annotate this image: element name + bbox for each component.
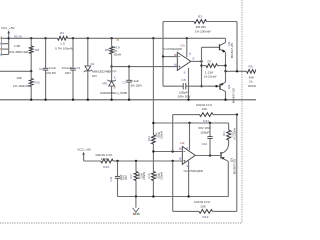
capacitor C3 (0.01uF) — [62, 38, 81, 99]
svg-text:R7: R7 — [208, 59, 212, 63]
svg-text:C11: C11 — [109, 176, 113, 182]
svg-text:R14: R14 — [222, 130, 226, 136]
wire +5V rail (y38) — [9, 37, 226, 39]
wire R12 to inverting input column x172.7 — [172, 115, 174, 152]
svg-text:R10: R10 — [34, 81, 40, 85]
wire U2 inverting input (y151.5) — [152, 150, 182, 152]
svg-text:100pF: 100pF — [200, 130, 209, 134]
svg-text:1%: 1% — [249, 80, 253, 84]
svg-text:10V: 10V — [92, 74, 97, 78]
wire U2 output (y155.5) — [195, 154, 220, 156]
wire +5V branch column x153.4 — [152, 38, 154, 196]
resistor R12 (10K feedback) — [173, 103, 239, 123]
svg-text:VCC_+5V: VCC_+5V — [77, 148, 91, 152]
svg-text:C10: C10 — [202, 142, 208, 146]
ground symbol — [133, 197, 140, 216]
svg-text:R19: R19 — [203, 215, 209, 219]
svg-text:R16: R16 — [103, 165, 109, 169]
wire R3 feedback loop — [163, 22, 237, 72]
junction dots on ground bus — [30, 99, 227, 101]
capacitor C7 — [122, 65, 142, 99]
junction dots on +5V rail — [30, 37, 188, 39]
svg-text:100K: 100K — [101, 157, 108, 161]
resistor R17 (100K) — [129, 161, 146, 197]
svg-text:0.1uF: 0.1uF — [49, 66, 57, 70]
svg-text:1.0: 1.0 — [60, 42, 65, 46]
svg-text:100mW: 100mW — [160, 131, 164, 139]
svg-text:R3: R3 — [198, 14, 202, 18]
wire U1 noninverting input (y66.6) — [112, 66, 178, 68]
wire V+ distribution (y123) — [152, 122, 228, 124]
svg-text:R18: R18 — [147, 173, 151, 179]
wire U1 V+ pin to rail — [186, 38, 188, 57]
power flag VCC_+5V (top left) — [1, 26, 15, 39]
resistor R16 (100K) — [95, 153, 117, 169]
svg-text:BC807-25: BC807-25 — [232, 158, 236, 174]
connector J1 (left edge, 4 pins) — [0, 36, 10, 56]
svg-text:100mW: 100mW — [142, 172, 146, 180]
net label RS_HI — [14, 35, 22, 39]
resistor R4 (1 Ohm, in top rail) — [55, 31, 73, 50]
svg-text:100mW 0.1%: 100mW 0.1% — [194, 200, 210, 204]
svg-text:R6: R6 — [35, 48, 39, 52]
svg-text:R5: R5 — [105, 48, 109, 52]
svg-text:U2: U2 — [180, 141, 185, 145]
zener diode D1 (MMSZ5248B-7-F) — [84, 38, 117, 99]
svg-text:Q2: Q2 — [227, 84, 231, 89]
resistor R11 (10K) — [147, 131, 164, 144]
shunt reference VR1 (LM4040) — [100, 67, 127, 100]
svg-text:R4: R4 — [60, 31, 64, 35]
resistor R19 (10K feedback) — [173, 115, 237, 219]
svg-text:BC807-25: BC807-25 — [232, 88, 236, 104]
svg-text:VR1: VR1 — [102, 82, 108, 86]
wire ground bus (y99.7) — [0, 99, 256, 101]
svg-text:C3: C3 — [76, 66, 80, 70]
svg-text:0.7% 100mW: 0.7% 100mW — [55, 46, 73, 50]
svg-text:0.1uF: 0.1uF — [131, 79, 140, 83]
wire U2 V+ pin — [189, 123, 191, 150]
capacitor C10 (100pF) — [198, 123, 212, 156]
svg-text:1% 100mW: 1% 100mW — [13, 84, 29, 88]
resistor R3 (20.0K) — [194, 14, 211, 33]
wire lower ground bus (y196.5) — [118, 195, 229, 197]
capacitor C11 (10uF) — [109, 161, 128, 197]
transistor Q1 BC817-25 — [202, 38, 235, 71]
svg-text:50V 10%: 50V 10% — [198, 126, 211, 130]
resistor R7 (1.21K) — [202, 59, 227, 78]
op-amp U2 TLC27M2AQDR — [179, 141, 203, 173]
svg-text:1.5K: 1.5K — [14, 44, 21, 48]
svg-text:R12: R12 — [203, 119, 209, 123]
resistor R5 — [105, 38, 122, 66]
svg-text:0.01uF: 0.01uF — [62, 66, 72, 70]
wire U1 inverting input (y56.6) — [162, 55, 178, 57]
svg-text:100V: 100V — [65, 71, 71, 75]
wire U2 V- pin — [188, 161, 190, 197]
transistor Q3 BC807-25 — [221, 152, 236, 197]
resistor R6 (1.5K) — [9, 38, 40, 71]
svg-text:R9: R9 — [249, 64, 253, 68]
power flag VCC_+5V (lower) — [77, 148, 101, 161]
transistor Q2 BC807-25 — [220, 71, 236, 103]
svg-text:C7: C7 — [122, 81, 126, 85]
page boundary dashed border — [0, 0, 242, 223]
resistor R10 (10K) — [13, 71, 40, 99]
svg-text:C2: C2 — [39, 67, 43, 71]
svg-text:10K: 10K — [200, 205, 206, 209]
svg-text:TLC27M2AQDR: TLC27M2AQDR — [183, 169, 203, 173]
resistor R9 (348, right of page split) — [247, 64, 258, 88]
wire U1 output to Q1 base / R7 column x201.5 — [200, 47, 202, 87]
wire Q2 base (y86.2) with C8 — [163, 57, 220, 88]
resistor R18 (10K) — [147, 172, 163, 181]
wire +in net (y161) — [116, 160, 182, 162]
svg-text:C8: C8 — [182, 78, 186, 82]
svg-text:D1: D1 — [91, 62, 95, 66]
svg-text:10% 50V: 10% 50V — [46, 71, 56, 75]
svg-text:250mW: 250mW — [248, 84, 256, 88]
svg-text:R11: R11 — [147, 135, 151, 141]
svg-text:10K: 10K — [202, 107, 208, 111]
svg-text:R17: R17 — [129, 173, 133, 179]
svg-text:100mW: 100mW — [159, 172, 163, 180]
wire tap to left edge (y71) — [0, 70, 32, 72]
svg-text:1% 250mW: 1% 250mW — [9, 50, 28, 54]
svg-text:TLC27M2AQDR: TLC27M2AQDR — [163, 47, 183, 51]
svg-text:10K: 10K — [17, 76, 23, 80]
node junction R5/VR1/+in — [110, 65, 112, 67]
svg-text:LM4040D0N0A-1_NOPB: LM4040D0N0A-1_NOPB — [100, 91, 127, 95]
capacitor C8 (100pF) — [178, 78, 191, 99]
svg-text:16V: 16V — [124, 175, 128, 180]
svg-text:20.0K: 20.0K — [196, 25, 207, 29]
svg-text:5% 100V: 5% 100V — [131, 84, 143, 88]
svg-text:1% 100mW: 1% 100mW — [195, 29, 211, 33]
svg-text:1% 100mW: 1% 100mW — [204, 74, 217, 78]
svg-text:1% 100mW: 1% 100mW — [232, 128, 236, 140]
wire output node (y71.3) to R9 — [224, 70, 246, 72]
op-amp U1 TLC27M2AQDR — [163, 43, 195, 73]
svg-text:VCC_+5V: VCC_+5V — [1, 26, 15, 30]
wire U1 V- pin to ground bus — [188, 68, 190, 100]
wire +in to R19 column x172.7 — [172, 161, 174, 211]
svg-text:BC817-25: BC817-25 — [230, 42, 234, 58]
wire U1 output — [191, 60, 203, 62]
svg-text:100mW: 100mW — [114, 53, 122, 57]
svg-text:10% 50V: 10% 50V — [178, 95, 191, 99]
capacitor C2 (0.1uF) — [39, 38, 56, 99]
resistor R14 (1.21K) — [222, 123, 237, 152]
